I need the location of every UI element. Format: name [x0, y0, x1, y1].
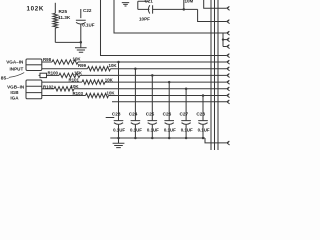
wire vertical bus V1: [210, 0, 212, 150]
svg-text:0.1UF: 0.1UF: [198, 127, 210, 132]
node junction C23 bus: [117, 137, 120, 140]
capacitor C27: [181, 121, 191, 138]
connector pin row6: [227, 94, 230, 98]
jumper box on row3: [40, 73, 47, 77]
wire from top at x203.7 to connector row y8.2: [204, 0, 227, 8]
svg-text:R101: R101: [69, 77, 80, 82]
svg-text:R99: R99: [78, 63, 87, 68]
resistor R103: [86, 93, 109, 97]
svg-text:11.3K: 11.3K: [58, 15, 71, 20]
wire stub to pin y47.5: [223, 46, 227, 48]
connector pin ground bus: [227, 141, 230, 145]
capacitor C22: [76, 9, 86, 42]
svg-text:0.1UF: 0.1UF: [181, 127, 193, 132]
wire L from top at x114 to row at y33: [114, 0, 227, 33]
svg-text:10K: 10K: [109, 63, 118, 68]
wire row1 to connector: [78, 61, 227, 63]
node junction C26 bus: [168, 137, 171, 140]
svg-text:R102: R102: [43, 84, 54, 89]
svg-text:IGA: IGA: [10, 95, 19, 100]
svg-text:C28: C28: [196, 111, 205, 116]
svg-text:R25: R25: [59, 9, 68, 14]
wire row3 stub: [39, 74, 40, 76]
svg-text:10K: 10K: [73, 56, 82, 61]
resistor R98: [52, 60, 78, 64]
node junction R25/C22/ground: [80, 41, 83, 44]
wire row6 from box to R103: [42, 95, 86, 97]
connector input box VGA-IN / INPUT: [26, 59, 42, 71]
node junction row1 / C23: [117, 61, 120, 64]
wire row5 from box to R102: [42, 88, 54, 90]
connector pin row4: [227, 80, 230, 84]
svg-text:R100: R100: [48, 71, 59, 76]
resistor R100: [59, 73, 80, 77]
node junction row3 / C25: [151, 74, 154, 77]
svg-text:C23: C23: [112, 111, 121, 116]
wire row3 to connector: [80, 74, 227, 76]
resistor R101: [82, 80, 105, 84]
wire stub to pin y40.6: [223, 39, 227, 41]
wire drop to C23: [118, 62, 120, 120]
svg-text:INPUT: INPUT: [10, 67, 24, 72]
wire drop to C26: [168, 82, 170, 120]
connector pin row2: [227, 67, 230, 71]
capacitor C26: [164, 121, 174, 138]
svg-text:10K: 10K: [107, 91, 116, 96]
wire row7 to connector: [112, 101, 227, 103]
capacitor C21: [148, 5, 152, 13]
connector input box VGB-IN / IGB / IGA: [26, 80, 42, 99]
capacitor C28: [198, 121, 208, 138]
wire drop to C24: [134, 69, 136, 121]
ground below capacitor bus: [113, 138, 125, 148]
node junction at connector drop: [222, 38, 224, 40]
connector pin y47.5: [227, 45, 230, 49]
svg-text:0.1UF: 0.1UF: [164, 127, 176, 132]
wire row5 to connector: [74, 88, 227, 90]
connector pin row3: [227, 74, 230, 78]
node junction C25 bus: [151, 137, 154, 140]
svg-text:VGA–IN: VGA–IN: [6, 60, 24, 65]
node junction row6 / C28: [202, 94, 205, 97]
wire bottom lead of R25: [54, 28, 56, 42]
svg-text:102K: 102K: [27, 6, 45, 13]
svg-text:C21: C21: [145, 0, 154, 3]
wire drop to C27: [185, 89, 187, 121]
svg-text:C25: C25: [146, 111, 155, 116]
svg-text:10M: 10M: [185, 0, 194, 4]
svg-text:R98: R98: [43, 57, 52, 62]
wire row6 to connector: [109, 95, 227, 97]
wire row2 to connector: [111, 68, 227, 70]
svg-text:C24: C24: [129, 111, 138, 116]
node junction C28 bus: [202, 137, 205, 140]
wire L from top at x100.5 to row at y55.5: [101, 0, 227, 56]
connector pin row7: [227, 100, 230, 104]
svg-text:15K: 15K: [74, 70, 83, 75]
wire drop from y33 row feeding two connector pins: [222, 33, 224, 47]
capacitor C24: [131, 121, 141, 138]
ground below C22: [75, 42, 87, 52]
wire row2 from box to R99: [42, 68, 88, 70]
svg-text:0.1UF: 0.1UF: [147, 127, 159, 132]
svg-text:VGB–IN: VGB–IN: [7, 85, 25, 90]
wire row1 from box to R98: [42, 61, 52, 63]
connector pin row5: [227, 87, 230, 91]
svg-text:10K: 10K: [105, 77, 114, 82]
resistor R25: [53, 13, 58, 28]
svg-text:R103: R103: [73, 91, 84, 96]
svg-text:10PF: 10PF: [139, 17, 150, 22]
node junction row5 / C27: [185, 88, 188, 91]
leader line from 85- label: [9, 73, 24, 78]
connector pin y8.2: [227, 6, 230, 10]
connector pin y21.5: [227, 20, 230, 24]
connector pin y40.6: [227, 38, 230, 42]
capacitor C21 leads and box corner: [138, 1, 150, 9]
svg-text:10K: 10K: [71, 84, 80, 89]
svg-text:C22: C22: [83, 8, 92, 13]
resistor R102: [54, 87, 74, 91]
svg-text:C27: C27: [179, 111, 188, 116]
connector pin row1: [227, 60, 230, 64]
wire drop to C25: [151, 75, 153, 120]
capacitor C23: [114, 121, 124, 138]
svg-text:C26: C26: [163, 111, 172, 116]
wire stub up from node: [183, 0, 185, 9]
wire row4 from box to R101: [42, 81, 82, 83]
node junction on C21 wire: [183, 8, 186, 11]
wire tick near C23: [106, 117, 115, 119]
node junction row2 / C24: [134, 67, 137, 70]
resistor R99: [88, 67, 111, 71]
wire row4 to connector: [105, 81, 227, 83]
wire vertical bus V2: [214, 0, 216, 150]
svg-text:85–: 85–: [1, 76, 9, 82]
wire bus jog to connector: [205, 138, 227, 143]
node junction C27 bus: [185, 137, 188, 140]
wire from C21 to corner: [153, 8, 198, 10]
wire top lead of R25: [54, 3, 56, 14]
svg-text:0.1UF: 0.1UF: [113, 127, 125, 132]
connector pin y55.5: [227, 54, 230, 58]
ground at top center: [122, 3, 129, 6]
svg-text:0.1UF: 0.1UF: [130, 127, 142, 132]
node junction C24 bus: [134, 137, 137, 140]
capacitor C25: [148, 121, 158, 138]
wire ground bus of R25/C22: [55, 41, 81, 43]
connector pin y33: [227, 31, 230, 35]
wire vertical bus V3: [217, 0, 219, 150]
wire step down to connector row y21.5: [198, 9, 227, 21]
wire drop to C28: [202, 96, 204, 121]
wire ground bus of capacitors: [110, 137, 205, 139]
svg-text:0.1UF: 0.1UF: [82, 23, 95, 28]
node junction row4 / C26: [168, 81, 171, 84]
wire row3 box to R100: [47, 74, 60, 76]
